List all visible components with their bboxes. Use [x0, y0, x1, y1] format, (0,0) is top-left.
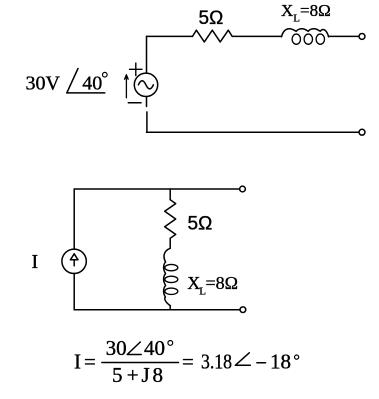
svg-text:=8Ω: =8Ω: [206, 273, 239, 293]
degree sign in numerator 40: [168, 341, 173, 346]
angle symbol in 30V label: slash: [67, 69, 78, 93]
voltage source circle: [134, 73, 157, 96]
current source arrowhead: [70, 254, 78, 260]
svg-text:=8Ω: =8Ω: [300, 1, 331, 20]
svg-text:+: +: [127, 363, 139, 387]
fraction bar: [102, 362, 179, 364]
resistor 5ohm vertical (bottom circuit): [165, 200, 176, 239]
vertical inductor loop 1: [165, 264, 178, 270]
svg-text:30V: 30V: [26, 73, 61, 95]
degree sign of label 40: [103, 72, 108, 77]
terminal top-right (open circle): [359, 33, 365, 39]
resistor 5ohm (top circuit): [193, 30, 233, 42]
wire bottom of bottom circuit: [74, 309, 239, 311]
inductor loop 3: [316, 34, 324, 44]
svg-text:8: 8: [153, 363, 164, 387]
minus sign: [128, 102, 141, 104]
inductor loop 2: [304, 34, 312, 44]
svg-text:=: =: [84, 350, 96, 374]
terminal bottom-right (bottom circuit): [240, 307, 246, 313]
wire middle branch bottom: [169, 306, 171, 310]
reference arrow (left of source): [125, 75, 129, 98]
sine wave inside source: [138, 81, 153, 89]
terminal top-right (bottom circuit): [240, 186, 246, 192]
plus sign: [130, 63, 143, 76]
svg-text:I: I: [32, 251, 39, 273]
svg-text:40: 40: [144, 336, 165, 360]
wire inductor to top terminal: [329, 35, 359, 37]
wire between vertical resistor and inductor: [169, 238, 171, 248]
svg-text:18: 18: [270, 350, 291, 374]
wire top of bottom circuit: [74, 188, 239, 190]
inductor vertical arc line (bottom circuit): [164, 248, 171, 305]
svg-text:5: 5: [112, 363, 123, 387]
inductor XL=8ohm top arc line (top circuit): [282, 29, 329, 37]
angle symbol in 30V label: underline: [67, 92, 105, 94]
wire between resistor and inductor: [232, 35, 281, 37]
wire middle branch top: [169, 189, 171, 200]
current source arrow shaft: [73, 260, 75, 266]
wire left vertical above source: [146, 36, 148, 73]
svg-text:X: X: [281, 1, 293, 20]
wire bottom of top circuit: [147, 131, 359, 133]
svg-text:5Ω: 5Ω: [188, 214, 213, 235]
inductor loop 1: [292, 34, 300, 44]
svg-text:3.18: 3.18: [201, 350, 232, 374]
wire left vertical below current source: [73, 273, 75, 309]
wire left vertical below source: [146, 97, 148, 133]
svg-text:30: 30: [106, 336, 127, 360]
svg-text:5Ω: 5Ω: [199, 8, 224, 29]
svg-text:J: J: [142, 363, 150, 387]
current source circle: [62, 249, 86, 273]
wire top circuit: top-left horizontal segment: [147, 35, 193, 37]
wire left vertical above current source: [73, 189, 75, 249]
angle symbol in numerator 30/40: [127, 342, 141, 355]
terminal bottom-right of top circuit: [359, 129, 365, 135]
angle symbol after 3.18: [235, 353, 250, 366]
vertical inductor loop 2: [165, 276, 178, 282]
vertical inductor loop 3: [165, 288, 178, 294]
degree sign after -18: [295, 355, 299, 359]
svg-text:=: =: [182, 350, 194, 374]
minus sign in -18: [257, 362, 266, 364]
svg-text:40: 40: [82, 73, 102, 95]
svg-text:I: I: [74, 350, 81, 374]
